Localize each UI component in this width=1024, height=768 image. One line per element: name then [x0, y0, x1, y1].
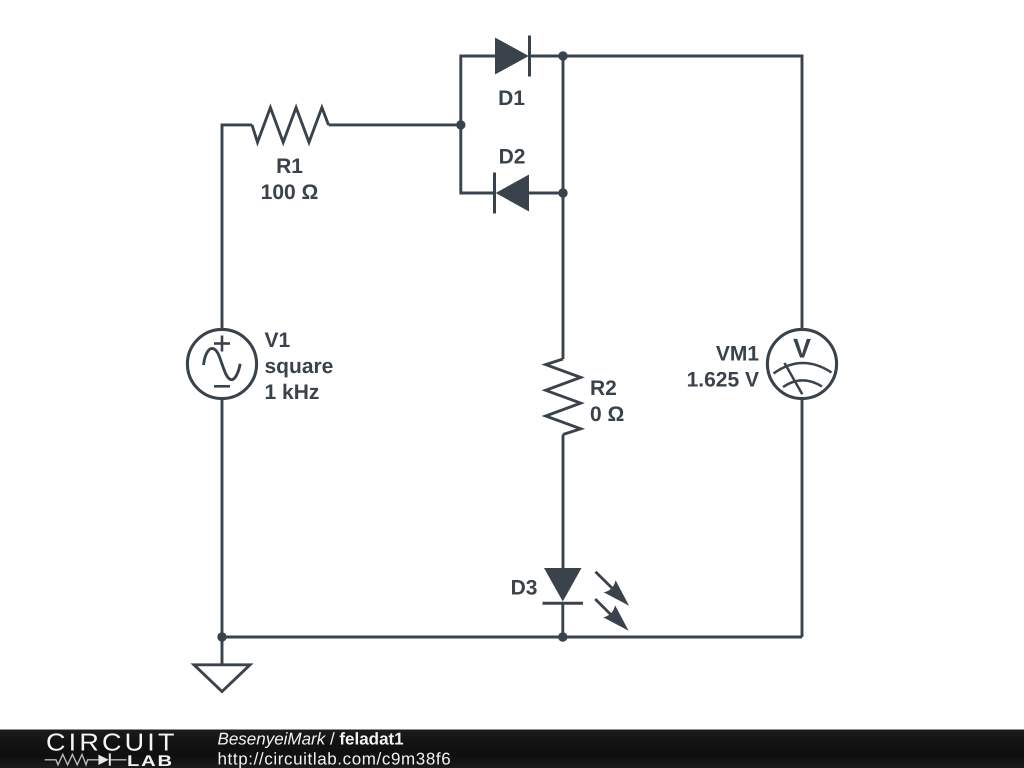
svg-text:VM1: VM1	[716, 342, 760, 365]
diode D2	[495, 173, 564, 214]
resistor R1	[252, 108, 329, 143]
label VM1 value 1.625 V	[687, 342, 760, 391]
svg-text:D2: D2	[499, 146, 526, 169]
svg-text:LAB: LAB	[127, 753, 174, 768]
voltage source V1	[187, 329, 256, 398]
wire: node B down to node C	[562, 56, 565, 193]
svg-text:0 Ω: 0 Ω	[590, 403, 624, 426]
node B junction dot (top)	[558, 51, 567, 60]
wire: node B to top-right corner down to VM1	[563, 56, 802, 329]
label V1 square 1 kHz	[265, 329, 334, 404]
wire: node C down to R2	[562, 193, 565, 359]
svg-text:1.625 V: 1.625 V	[687, 369, 759, 392]
resistor R2	[546, 359, 581, 435]
wire: bottom rail	[222, 636, 802, 639]
node D junction dot (bottom)	[558, 632, 567, 641]
CircuitLab logo resistor-diode squiggle	[45, 754, 127, 764]
svg-text:http://circuitlab.com/c9m38f6: http://circuitlab.com/c9m38f6	[218, 750, 452, 768]
logo diode	[98, 753, 110, 765]
svg-text:1 kHz: 1 kHz	[265, 381, 320, 404]
svg-text:100 Ω: 100 Ω	[261, 181, 319, 204]
wire: R2 to LED D3	[562, 435, 565, 569]
svg-text:R1: R1	[276, 155, 303, 178]
footer bar	[0, 730, 1024, 768]
voltmeter VM1	[767, 329, 836, 398]
svg-text:V1: V1	[265, 329, 291, 352]
wire: R1 to node A	[329, 123, 461, 126]
wire: node A up and to D1 anode	[461, 56, 495, 125]
wire: VM1 bottom to bottom rail	[801, 399, 804, 637]
wire: V1 top to top-left corner up to R1	[222, 125, 252, 330]
node C junction dot (D2 right)	[558, 188, 567, 197]
svg-text:BesenyeiMark / feladat1: BesenyeiMark / feladat1	[218, 730, 404, 749]
svg-text:R2: R2	[590, 377, 617, 400]
label R2 value 0 Ω	[590, 377, 624, 426]
LED D3 arrow 2	[595, 599, 628, 631]
wire: V1 bottom to ground node	[221, 399, 224, 637]
LED D3	[543, 568, 584, 637]
svg-text:square: square	[265, 355, 334, 378]
svg-text:D3: D3	[511, 577, 538, 600]
LED D3 arrow 1	[596, 572, 630, 606]
diode D1	[495, 36, 563, 77]
svg-text:D1: D1	[498, 87, 525, 110]
node A junction dot	[456, 120, 465, 129]
label R1 value 100 Ω	[261, 155, 319, 204]
node E junction dot (ground)	[217, 632, 226, 641]
wire: node A down to D2	[461, 125, 495, 193]
ground	[194, 637, 250, 692]
svg-text:V: V	[793, 333, 811, 363]
